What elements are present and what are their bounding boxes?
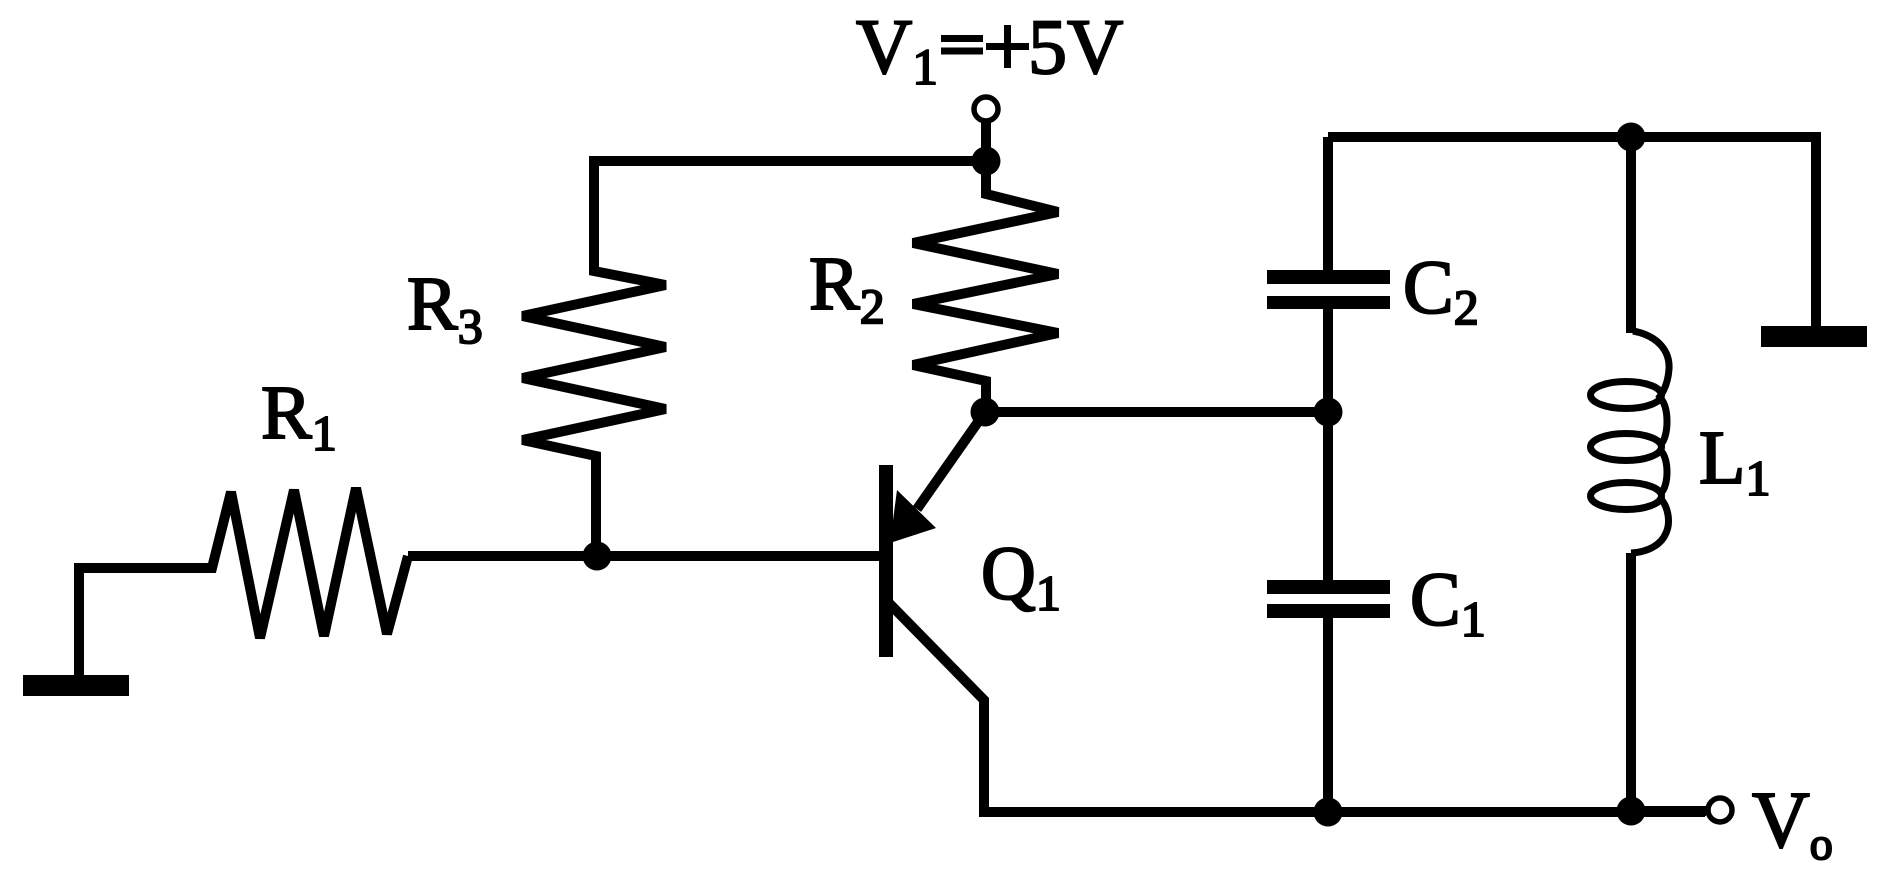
svg-text:5V: 5V: [1028, 3, 1123, 90]
